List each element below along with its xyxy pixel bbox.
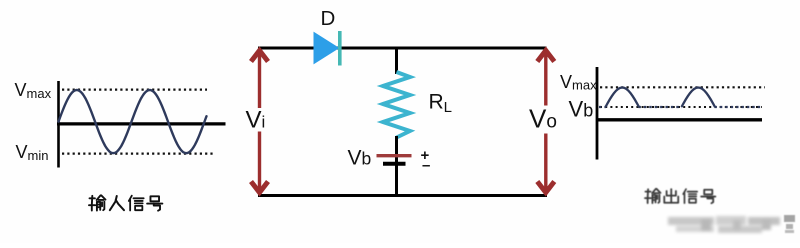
svg-text:Vb: Vb (569, 96, 594, 121)
output graph vertical axis (596, 67, 599, 160)
output waveform bump 1 (606, 88, 640, 108)
label 输入信号 (89, 195, 106, 210)
Vmax dotted level line (input) (62, 88, 207, 90)
output waveform flat dotted segments (blue) (599, 106, 762, 108)
Vo arrow (red, double-headed) (537, 51, 554, 193)
watermark smear bottom right (668, 216, 780, 233)
svg-text:D: D (321, 7, 336, 30)
watermark dark mark right edge (784, 215, 795, 233)
input sine waveform (59, 90, 207, 153)
Vmax dotted level line (output) (600, 86, 765, 88)
diode D cathode bar (338, 31, 342, 66)
svg-text:–: – (422, 157, 430, 174)
input graph vertical axis (57, 81, 60, 168)
diode D anode triangle (314, 33, 339, 64)
wire resistor to battery (395, 136, 398, 162)
output graph horizontal axis (thick) (596, 118, 762, 121)
wire middle branch top (395, 47, 398, 75)
Vb dotted level line (output) (600, 106, 762, 108)
svg-text:Vb: Vb (348, 147, 372, 170)
Vmin dotted level line (input) (62, 153, 213, 155)
resistor RL zigzag (383, 72, 410, 138)
input graph horizontal axis (57, 122, 226, 125)
wire top (258, 47, 547, 50)
Vi arrow (red, double-headed) (251, 51, 268, 193)
wire bottom (258, 194, 547, 197)
wire battery to bottom (395, 164, 398, 196)
battery Vb positive plate (red) (377, 154, 412, 157)
output waveform bump 2 (682, 88, 716, 108)
battery Vb negative plate (383, 162, 406, 166)
label 输出信号 (blurred) (645, 189, 715, 203)
